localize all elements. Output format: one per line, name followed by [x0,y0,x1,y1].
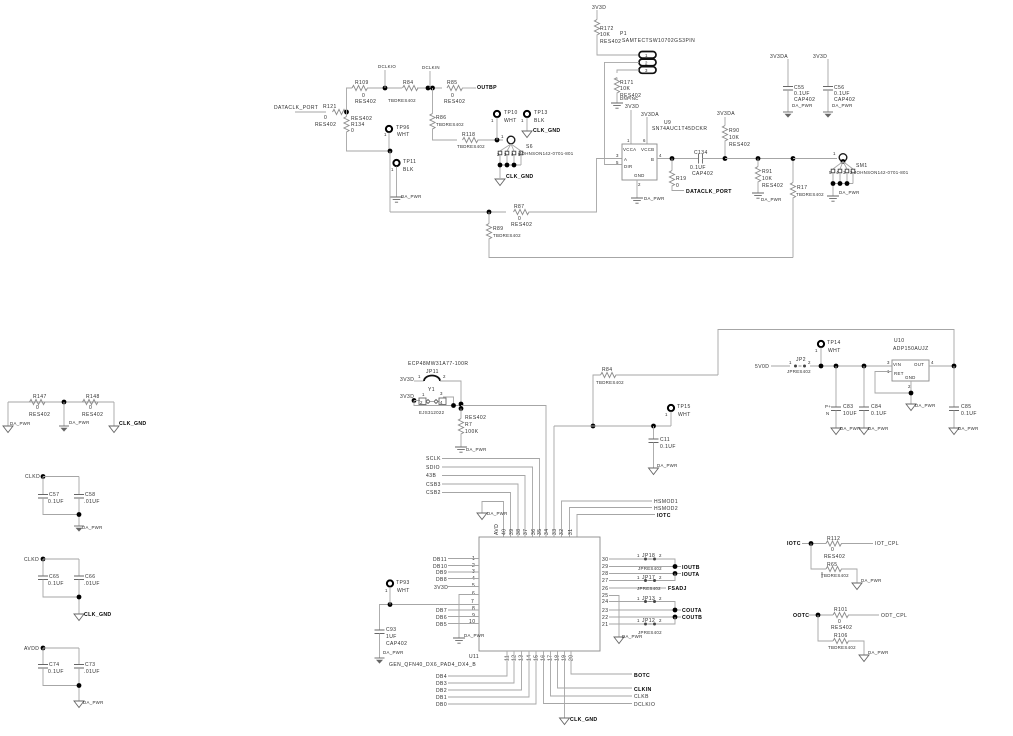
U11 right pins [602,553,702,644]
svg-text:JOHNSON142-0701-801: JOHNSON142-0701-801 [519,151,574,156]
resistor R171 [614,78,619,94]
svg-text:TP15: TP15 [677,404,691,410]
svg-text:OUT: OUT [914,362,924,367]
svg-text:JPRES402: JPRES402 [787,369,811,374]
svg-text:WHT: WHT [397,132,410,138]
svg-text:R17: R17 [797,185,808,191]
svg-text:CLK_GND: CLK_GND [119,421,147,427]
svg-text:39: 39 [509,529,515,535]
OOTC coupling group [793,607,907,662]
svg-text:JP18: JP18 [642,553,655,559]
svg-text:R86: R86 [436,115,447,121]
svg-text:TBDRES402: TBDRES402 [796,192,824,197]
svg-text:2: 2 [659,553,662,558]
svg-text:RES402: RES402 [729,142,750,148]
svg-text:1: 1 [637,575,640,580]
svg-text:1: 1 [385,588,388,593]
ground CLK_GND [522,131,532,138]
svg-text:GND: GND [905,375,916,380]
net HSMOD1 [562,501,653,537]
svg-text:3V3DA: 3V3DA [717,111,735,117]
svg-text:SAMTECTSW10702GS3PIN: SAMTECTSW10702GS3PIN [622,38,695,44]
svg-text:29: 29 [602,564,608,570]
svg-text:DB5: DB5 [436,622,447,628]
svg-text:A: A [624,157,627,162]
svg-text:1: 1 [418,374,421,379]
wire [390,211,506,213]
svg-text:AVD: AVD [494,524,500,535]
svg-text:CLK_GND: CLK_GND [506,174,534,180]
ground DA_PWR [453,638,465,643]
svg-text:2: 2 [420,400,423,405]
resistor R118 [463,137,479,142]
svg-text:1: 1 [645,53,648,58]
svg-text:EJS312022: EJS312022 [419,410,445,415]
svg-text:WHT: WHT [678,412,691,418]
R87 R89 loop [390,159,824,258]
svg-text:JP13: JP13 [642,596,655,602]
svg-text:GEN_QFN40_DX6_PAD4_DX4_B: GEN_QFN40_DX6_PAD4_DX4_B [389,662,476,668]
svg-text:R89: R89 [493,226,504,232]
svg-text:0.1UF: 0.1UF [871,411,887,417]
svg-text:ADP150AUJZ: ADP150AUJZ [893,346,929,352]
node junction [591,424,596,429]
svg-text:COUTB: COUTB [682,615,702,621]
capacitor C11 [653,426,655,439]
svg-text:TP10: TP10 [504,110,518,116]
ground DA_PWR [827,196,839,201]
svg-text:C73: C73 [85,662,96,668]
svg-text:20: 20 [569,655,575,661]
svg-text:C134: C134 [694,150,708,156]
svg-text:TBDRES402: TBDRES402 [388,98,416,103]
svg-text:15: 15 [534,655,540,661]
svg-text:2: 2 [659,618,662,623]
node junction [344,110,349,115]
svg-text:CLK_GND: CLK_GND [570,717,598,723]
svg-text:TBDRES402: TBDRES402 [493,233,521,238]
wire [725,158,793,160]
wire [389,151,391,212]
wires pads to bus [500,155,521,178]
svg-text:R65: R65 [827,562,838,568]
svg-text:0: 0 [36,405,39,411]
svg-text:DA_PWR: DA_PWR [868,426,889,431]
svg-text:DA_PWR: DA_PWR [644,196,665,201]
resistor R84 [403,85,419,90]
bottom pin numbers rotated [505,655,575,661]
jumper JP12 pin21 [609,617,675,624]
svg-text:.01UF: .01UF [84,499,100,505]
svg-text:DA_PWR: DA_PWR [657,463,678,468]
node junction [487,210,492,215]
svg-text:.01UF: .01UF [84,669,100,675]
svg-text:DA_PWR: DA_PWR [82,525,103,530]
wire [8,401,114,403]
resistor R134 [344,117,349,133]
cap group 3 [24,557,112,621]
wire [793,158,837,160]
svg-text:3V3D: 3V3D [813,54,827,60]
node junction [670,156,675,161]
ground DA_PWR top-left of IC [482,502,504,538]
svg-text:R101: R101 [834,607,848,613]
wire [295,111,326,113]
svg-text:1: 1 [472,556,475,562]
capacitor C84 [863,366,865,407]
svg-text:RES402: RES402 [824,554,845,560]
node junction [809,541,814,546]
regulator power section [554,330,979,538]
svg-text:0: 0 [831,547,834,553]
regulator U10 [892,360,929,381]
jumper JP13 pin24 [609,602,675,611]
svg-text:22: 22 [602,615,608,621]
right pin numbers [602,557,608,628]
svg-text:JPRES402: JPRES402 [638,630,662,635]
svg-text:0.1UF: 0.1UF [961,411,977,417]
svg-text:40: 40 [502,529,508,535]
svg-text:C65: C65 [49,574,60,580]
resistor R85 [447,85,463,90]
svg-text:R106: R106 [834,633,848,639]
svg-text:DCLKIO: DCLKIO [634,702,655,708]
svg-text:1: 1 [833,151,836,156]
svg-text:10UF: 10UF [843,411,857,417]
ground DA_PWR [949,428,959,435]
svg-text:IOUTB: IOUTB [682,565,700,571]
net HSMOD2 [570,508,653,538]
ground DA_PWR [906,404,916,411]
svg-text:OUTBP: OUTBP [477,85,497,91]
svg-text:IOT_CPL: IOT_CPL [875,541,899,547]
svg-text:DA_PWR: DA_PWR [487,511,508,516]
net CLKB [551,651,633,696]
node junction double [426,86,431,91]
svg-text:TP96: TP96 [396,125,410,131]
svg-text:TBDRES402: TBDRES402 [821,573,849,578]
resistor R148 [83,399,99,404]
svg-text:C84: C84 [871,404,882,410]
svg-text:Y1: Y1 [428,387,435,393]
svg-text:WHT: WHT [397,588,410,594]
svg-text:3: 3 [843,170,846,175]
svg-text:VCCA: VCCA [623,147,636,152]
svg-text:CLKD: CLKD [25,474,40,480]
svg-text:DATACLK_PORT: DATACLK_PORT [274,105,318,111]
svg-text:DA_PWR: DA_PWR [861,578,882,583]
wire top rail [718,330,954,376]
svg-text:DA_PWR: DA_PWR [464,633,485,638]
svg-text:C93: C93 [386,627,397,633]
node junction [756,156,761,161]
wire pin29 IOUTB [609,566,681,568]
svg-text:1: 1 [491,118,494,123]
svg-text:DA_PWR: DA_PWR [466,447,487,452]
capacitor C55 [783,87,793,91]
wire [462,87,476,89]
svg-text:RES402: RES402 [762,183,783,189]
ground DA_PWR [752,193,764,198]
net BOTC [571,651,632,674]
svg-text:33: 33 [552,529,558,535]
resistor R17 [790,183,795,199]
capacitor C73 [74,665,84,669]
svg-text:R87: R87 [514,204,525,210]
svg-text:DA_PWR: DA_PWR [401,194,422,199]
svg-text:COUTA: COUTA [682,608,702,614]
svg-text:DCLKIN: DCLKIN [422,65,440,70]
resistor R91 [755,167,760,183]
wire pin3 [617,70,639,73]
ground DA_PWR [375,658,385,664]
svg-text:CAP402: CAP402 [386,641,407,647]
U9 level translator section [616,104,909,203]
svg-text:BOTC: BOTC [634,673,650,679]
resistor R87 [514,209,530,214]
ground DA_PWR [391,197,403,202]
resistor R112 [826,541,842,546]
svg-text:BLK: BLK [403,167,414,173]
svg-text:R7: R7 [465,422,472,428]
svg-text:DB9: DB9 [436,570,447,576]
svg-text:3V3D: 3V3D [625,104,639,110]
ground DA_PWR [74,701,84,708]
wire [478,139,504,141]
resistor R90 [722,126,727,142]
svg-text:RET: RET [894,371,904,376]
ground CLK_GND [495,179,505,186]
pin7 wire to TP93 [380,605,480,631]
DAC U11 [375,524,601,668]
wire pin4 [657,158,699,160]
wire EN loop [875,372,911,394]
svg-text:HSMOD2: HSMOD2 [654,506,678,512]
svg-text:RES402: RES402 [82,412,103,418]
ground DA_PWR mid [63,402,65,426]
svg-text:R19: R19 [676,176,687,182]
svg-text:JP11: JP11 [426,369,439,375]
svg-text:IOTC: IOTC [657,513,671,519]
svg-text:TP93: TP93 [396,580,410,586]
svg-text:23: 23 [602,608,608,614]
svg-text:1: 1 [384,132,387,137]
svg-text:C57: C57 [49,492,60,498]
svg-text:JP2: JP2 [796,357,806,363]
ground CLK_GND [74,614,84,621]
svg-text:1UF: 1UF [386,634,397,640]
svg-text:24: 24 [602,599,608,605]
resistor R84b [601,372,617,377]
resistor R19 [669,171,674,187]
svg-text:DA_PWR: DA_PWR [839,190,860,195]
node junction [952,364,957,369]
wire stub DCLKIO [384,70,386,88]
svg-text:0: 0 [89,405,92,411]
svg-text:DA_PWR: DA_PWR [761,197,782,202]
pin25 ground [609,596,619,638]
wire stub DCLKIN [429,71,431,88]
IC body U11 [479,537,600,651]
svg-text:10K: 10K [600,32,610,38]
svg-text:100K: 100K [465,429,479,435]
svg-text:3V3D: 3V3D [592,5,606,11]
svg-text:6: 6 [643,138,646,143]
node junction [816,613,821,618]
svg-text:1: 1 [521,118,524,123]
svg-text:JOHNSON142-0701-801: JOHNSON142-0701-801 [854,170,909,175]
node junctions [831,181,836,186]
resistor R89 [486,224,491,240]
svg-text:RES402: RES402 [315,122,336,128]
cap group 4 [24,646,104,708]
node junction [495,138,500,143]
svg-text:2: 2 [638,182,641,187]
svg-text:1: 1 [422,392,425,397]
pads 2,3,4,5 [498,151,502,155]
net DCLKIO [544,651,633,704]
svg-text:3V3D: 3V3D [434,585,448,591]
testpoint TP13 [524,111,530,117]
svg-text:3: 3 [645,68,648,73]
svg-text:38: 38 [516,529,522,535]
ground DA_PWR [649,468,659,475]
svg-text:RES402: RES402 [29,412,50,418]
svg-text:R91: R91 [762,169,773,175]
svg-text:4: 4 [472,576,475,582]
svg-text:R90: R90 [729,128,740,134]
svg-text:ECP48MW31A77-100R: ECP48MW31A77-100R [408,361,468,367]
svg-text:1: 1 [665,412,668,417]
svg-text:AVDD: AVDD [24,646,39,652]
svg-text:WHT: WHT [504,118,517,124]
node junction [77,512,82,517]
svg-text:R112: R112 [827,536,840,542]
svg-text:RES402: RES402 [355,99,376,105]
svg-text:4: 4 [836,170,839,175]
capacitor C83 polarized [835,366,837,407]
svg-text:R84: R84 [403,80,414,86]
node junction [77,683,82,688]
svg-text:2: 2 [659,575,662,580]
oscillator section [400,361,678,537]
node junction [723,156,728,161]
svg-text:TBDRES402: TBDRES402 [457,144,485,149]
capacitor C65 [38,576,48,580]
svg-text:5: 5 [472,583,475,589]
svg-text:WHT: WHT [828,348,841,354]
wire [554,425,671,427]
net CLKIN [558,651,633,688]
svg-text:R109: R109 [355,80,369,86]
ground DA_PWR [852,583,862,590]
U11 bottom pins [436,651,655,725]
svg-text:R85: R85 [447,80,458,86]
svg-text:HSMOD1: HSMOD1 [654,499,678,505]
svg-text:C58: C58 [85,492,96,498]
svg-text:TBDRES402: TBDRES402 [596,380,624,385]
node junction [77,595,82,600]
testpoint TP10 [494,111,500,117]
svg-text:27: 27 [602,578,608,584]
svg-text:0.1UF: 0.1UF [660,444,676,450]
svg-text:3V3DA: 3V3DA [770,54,788,60]
svg-text:N: N [826,411,829,416]
resistor R7 [458,419,463,435]
svg-text:RES402: RES402 [444,99,465,105]
ground DA_PWR [859,428,869,435]
resistor R121 [333,109,349,114]
wire [529,159,623,213]
decoupling caps C55 C56 [770,54,855,118]
svg-text:1: 1 [637,618,640,623]
connector S6 [507,136,515,144]
S6 SMA cluster [491,110,574,186]
svg-text:JP17: JP17 [642,575,655,581]
svg-text:5: 5 [616,160,619,165]
svg-text:DNP/NC: DNP/NC [620,96,639,101]
svg-text:RES402: RES402 [600,39,621,45]
svg-text:DA_PWR: DA_PWR [832,103,853,108]
svg-text:TBDRES402: TBDRES402 [828,645,856,650]
capacitor C93 [375,630,385,634]
capacitor C85 [953,366,955,407]
svg-text:3V3DA: 3V3DA [641,112,659,118]
svg-text:C74: C74 [49,662,60,668]
capacitor C74 [38,665,48,669]
pads [831,169,835,173]
svg-text:1: 1 [637,596,640,601]
svg-text:C11: C11 [660,437,670,443]
ground DA_PWR [859,655,869,662]
svg-text:5V0D: 5V0D [755,364,769,370]
svg-text:VIN: VIN [893,362,901,367]
svg-text:1: 1 [789,360,792,365]
svg-text:IOTC: IOTC [787,541,801,547]
svg-text:DA_PWR: DA_PWR [792,103,813,108]
resistor R109 [352,85,368,90]
pin6 ground wire [459,595,479,639]
wire pin28 IOUTA [609,573,681,575]
svg-text:SCLK: SCLK [426,456,441,462]
svg-text:TP11: TP11 [403,159,416,165]
wire [347,88,353,112]
header P1 [592,5,695,165]
ground DA_PWR [74,526,84,532]
left pins [469,556,475,625]
ground CLK_GND pin19 [564,651,566,718]
ground DA_PWR [631,198,643,203]
ground CLK_GND right [113,402,115,426]
svg-text:FSADJ: FSADJ [668,586,687,592]
svg-text:C85: C85 [961,404,972,410]
top-left input chain [274,64,504,212]
left resistor pair group [3,394,147,433]
svg-text:RES402: RES402 [831,625,852,631]
svg-text:DA_PWR: DA_PWR [83,700,104,705]
svg-text:10K: 10K [620,86,630,92]
ground DA_PWR [823,112,833,118]
svg-text:DB8: DB8 [436,577,447,583]
svg-text:DCLKIO: DCLKIO [378,64,396,69]
svg-text:DB7: DB7 [436,608,447,614]
node junction [388,149,393,154]
svg-text:DA_PWR: DA_PWR [383,650,404,655]
svg-text:4: 4 [931,360,934,365]
node junction [909,391,914,396]
svg-text:ODT_CPL: ODT_CPL [881,613,907,619]
cap group 2 [25,474,103,532]
